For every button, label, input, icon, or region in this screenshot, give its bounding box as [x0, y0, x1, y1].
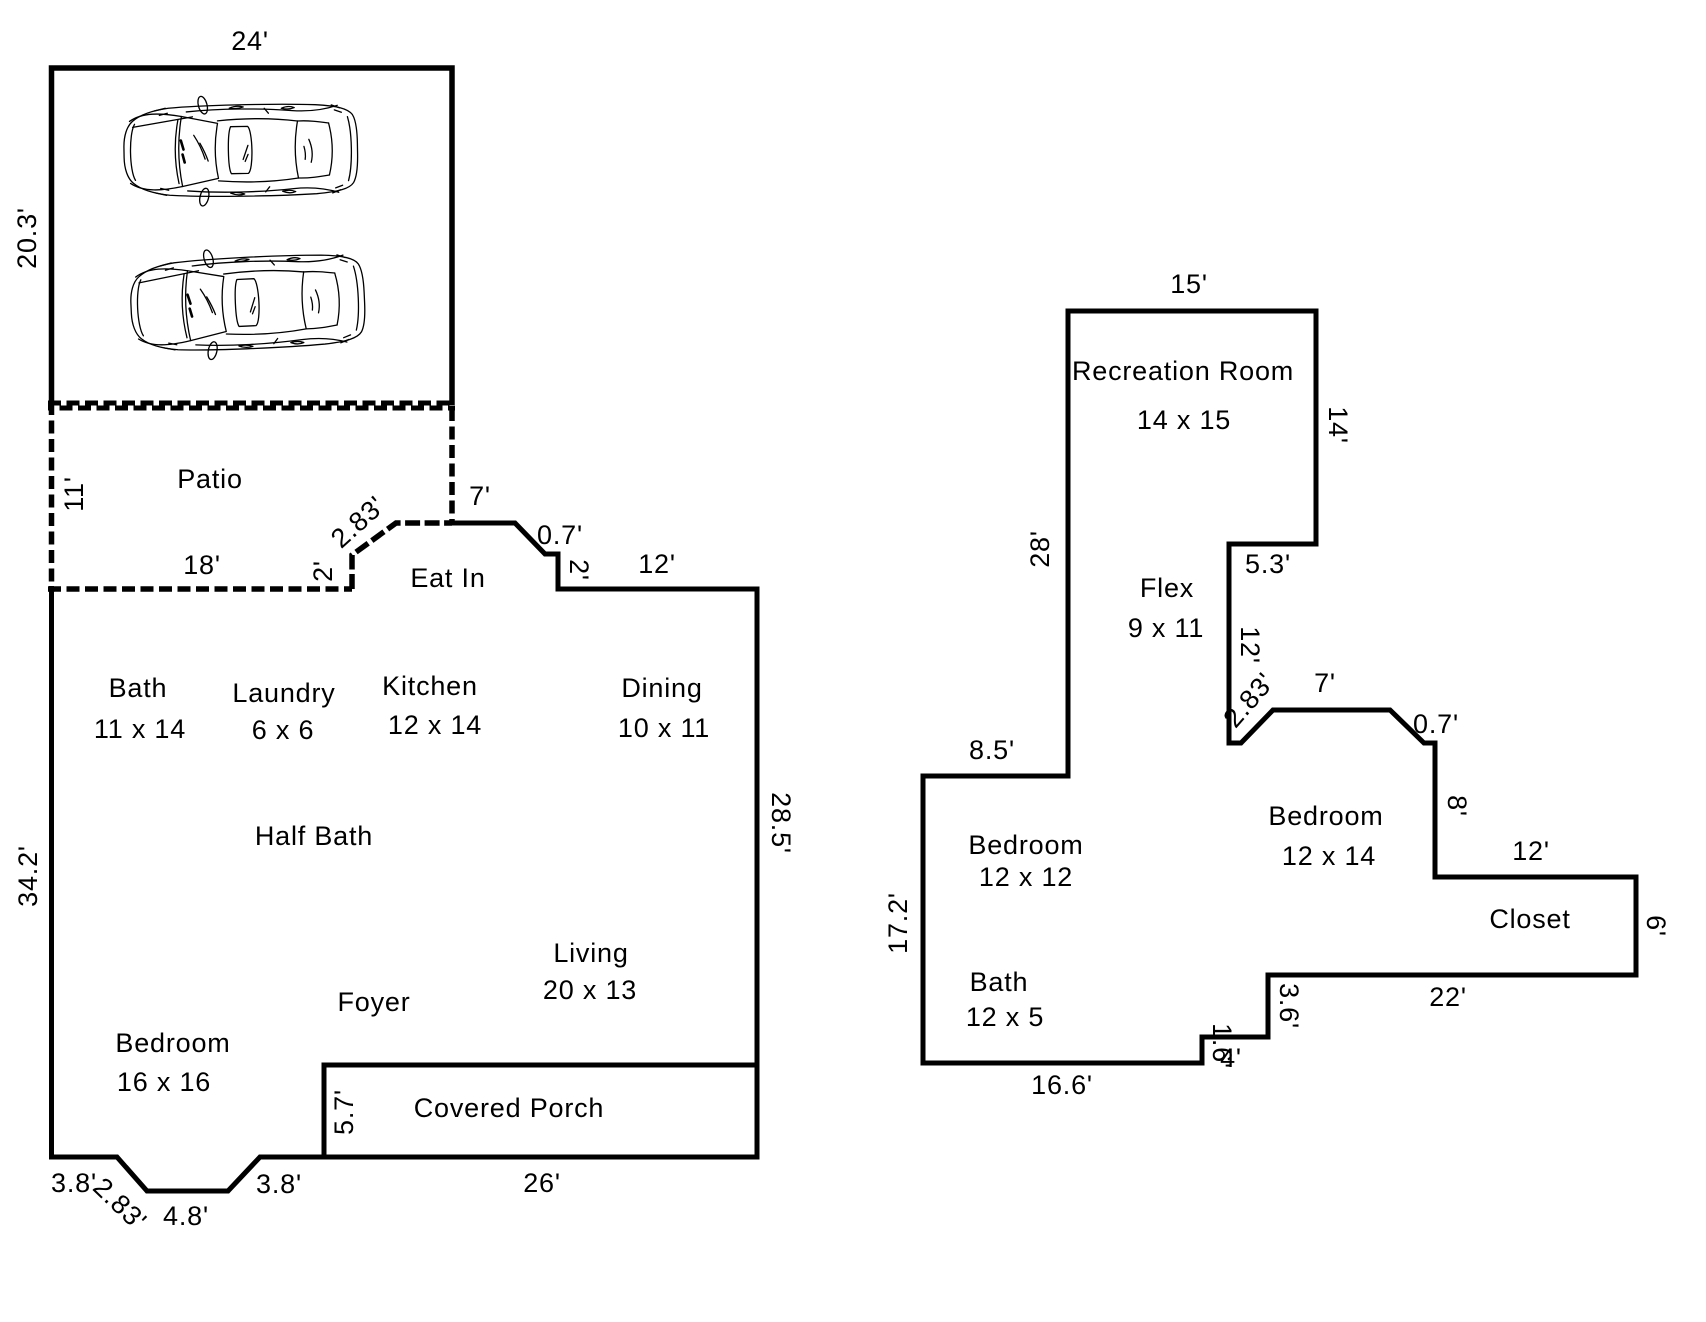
- eat-in dashed walls: [352, 523, 452, 589]
- svg-text:11': 11': [59, 476, 89, 512]
- car 2: [129, 242, 367, 364]
- svg-text:Half Bath: Half Bath: [255, 821, 373, 851]
- svg-text:12': 12': [1235, 626, 1265, 664]
- svg-text:Covered Porch: Covered Porch: [414, 1093, 605, 1123]
- covered porch walls: [324, 1065, 757, 1157]
- svg-text:26': 26': [523, 1168, 561, 1198]
- svg-text:7': 7': [469, 481, 491, 511]
- svg-text:5.7': 5.7': [329, 1089, 359, 1135]
- svg-text:Patio: Patio: [177, 464, 243, 494]
- svg-text:12 x 12: 12 x 12: [979, 862, 1073, 892]
- svg-text:28.5': 28.5': [766, 792, 796, 854]
- svg-text:34.2': 34.2': [13, 845, 43, 907]
- svg-text:2': 2': [564, 559, 594, 581]
- svg-text:12 x 14: 12 x 14: [388, 710, 482, 740]
- house outline: [52, 523, 758, 1191]
- svg-text:20.3': 20.3': [12, 207, 42, 269]
- svg-text:Bedroom: Bedroom: [1268, 801, 1383, 831]
- svg-text:Laundry: Laundry: [232, 678, 335, 708]
- svg-text:Bedroom: Bedroom: [115, 1028, 230, 1058]
- svg-text:16 x 16: 16 x 16: [117, 1067, 211, 1097]
- svg-text:8.5': 8.5': [969, 735, 1015, 765]
- svg-text:20 x 13: 20 x 13: [543, 975, 637, 1005]
- patio right dashed: [449, 408, 455, 523]
- svg-text:12 x 5: 12 x 5: [966, 1002, 1044, 1032]
- svg-text:Closet: Closet: [1489, 904, 1570, 934]
- svg-text:6': 6': [1641, 915, 1671, 937]
- garage walls (solid U): [52, 68, 453, 405]
- svg-text:4': 4': [1220, 1043, 1242, 1073]
- svg-text:Recreation Room: Recreation Room: [1072, 356, 1294, 386]
- svg-text:Dining: Dining: [621, 673, 702, 703]
- patio left dashed: [49, 402, 55, 592]
- svg-text:12': 12': [638, 549, 676, 579]
- svg-text:5.3': 5.3': [1245, 549, 1291, 579]
- svg-text:Living: Living: [553, 938, 628, 968]
- svg-text:0.7': 0.7': [1413, 709, 1459, 739]
- svg-text:2': 2': [308, 560, 338, 582]
- svg-text:14 x 15: 14 x 15: [1137, 405, 1231, 435]
- svg-text:4.8': 4.8': [163, 1201, 209, 1231]
- car 1: [123, 93, 358, 209]
- svg-text:Bedroom: Bedroom: [968, 830, 1083, 860]
- svg-text:12': 12': [1512, 836, 1550, 866]
- garage bottom dashed: [48, 401, 455, 406]
- svg-text:24': 24': [231, 26, 269, 56]
- svg-text:10 x 11: 10 x 11: [618, 713, 710, 743]
- svg-text:3.8': 3.8': [256, 1169, 302, 1199]
- svg-text:Foyer: Foyer: [337, 987, 410, 1017]
- svg-text:18': 18': [183, 550, 221, 580]
- patio bottom dashed: [48, 586, 352, 592]
- svg-text:16.6': 16.6': [1031, 1070, 1093, 1100]
- svg-text:17.2': 17.2': [883, 892, 913, 954]
- svg-text:Kitchen: Kitchen: [382, 671, 478, 701]
- svg-text:7': 7': [1314, 668, 1336, 698]
- svg-text:11 x 14: 11 x 14: [94, 714, 186, 744]
- svg-text:3.6': 3.6': [1274, 983, 1304, 1029]
- svg-text:Bath: Bath: [109, 673, 168, 703]
- svg-text:22': 22': [1429, 982, 1467, 1012]
- svg-text:8': 8': [1442, 795, 1472, 817]
- svg-text:28': 28': [1025, 530, 1055, 568]
- svg-text:6 x 6: 6 x 6: [252, 715, 315, 745]
- svg-text:9 x 11: 9 x 11: [1128, 613, 1204, 643]
- svg-text:Flex: Flex: [1140, 573, 1194, 603]
- svg-text:Bath: Bath: [970, 967, 1029, 997]
- svg-text:15': 15': [1170, 269, 1208, 299]
- svg-text:0.7': 0.7': [537, 520, 583, 550]
- svg-text:14': 14': [1323, 406, 1353, 444]
- svg-text:Eat In: Eat In: [410, 563, 485, 593]
- svg-text:12 x 14: 12 x 14: [1282, 841, 1376, 871]
